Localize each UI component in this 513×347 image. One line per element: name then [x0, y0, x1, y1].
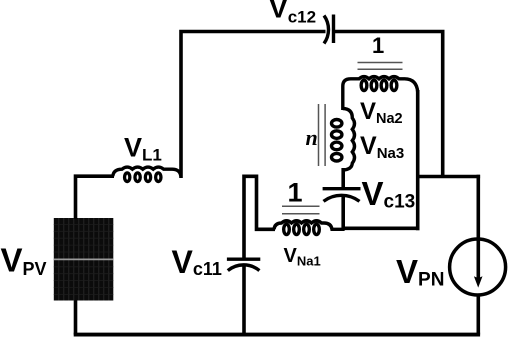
- wire: main right vertical lower: [476, 295, 480, 335]
- source arrowhead: [474, 276, 483, 287]
- svg-text:VPV: VPV: [1, 242, 47, 280]
- wire: bottom rail: [74, 333, 480, 337]
- inductor winding Na3 (vertical): [332, 109, 355, 171]
- capacitor C12: [324, 15, 334, 44]
- wire: box bottom bar: [342, 227, 420, 231]
- wire: middle branch top jog: [244, 176, 275, 260]
- inductor L1: [113, 167, 181, 181]
- svg-text:VPN: VPN: [396, 253, 444, 291]
- svg-text:VL1: VL1: [124, 133, 162, 165]
- wire: top-left riser and top wire left segment: [181, 32, 326, 179]
- inductor winding Na2 (top): [343, 77, 418, 110]
- inductor winding Na1: [274, 221, 345, 235]
- svg-text:n: n: [306, 125, 318, 150]
- core lines of transformer Na3: [319, 104, 326, 166]
- source V_PN circle: [450, 239, 506, 295]
- svg-text:VNa2: VNa2: [360, 98, 403, 127]
- wire: panel bottom lead: [74, 300, 78, 335]
- svg-text:Vc11: Vc11: [172, 244, 222, 280]
- wire: box right vertical: [416, 90, 420, 230]
- svg-text:Vc12: Vc12: [269, 0, 316, 27]
- svg-text:1: 1: [372, 33, 384, 58]
- svg-text:1: 1: [288, 178, 303, 208]
- wire: c13 branch upper: [341, 168, 345, 188]
- svg-text:VNa3: VNa3: [360, 132, 404, 162]
- wire: middle branch lower: [242, 267, 246, 335]
- capacitor C13: [323, 189, 361, 202]
- solar panel V_PV: [54, 218, 114, 301]
- svg-text:Vc13: Vc13: [362, 175, 416, 213]
- core lines of transformer Na1: [282, 206, 320, 214]
- wire: panel top lead and left horizontal: [76, 176, 115, 219]
- core lines of transformer Na2: [358, 63, 403, 70]
- svg-text:VNa1: VNa1: [284, 245, 321, 269]
- capacitor C11: [227, 259, 260, 270]
- wire: top wire right segment and descent: [334, 32, 443, 177]
- wire: right link at y=176.5: [416, 175, 480, 179]
- wire: main right vertical upper + source arrow shaft: [476, 175, 480, 282]
- wire: c13 branch lower: [341, 197, 345, 230]
